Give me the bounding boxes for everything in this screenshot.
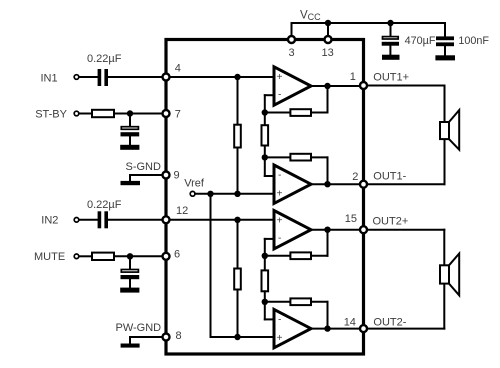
pin 2 — [352, 171, 406, 188]
pin 1 — [350, 71, 409, 89]
input terminal ST-BY — [35, 108, 79, 120]
pin 8 — [163, 330, 182, 342]
pin 4 — [163, 63, 181, 81]
wire Vref row to op-amp U1B + — [195, 193, 273, 195]
wire U1A - input — [265, 95, 273, 112]
input terminal IN1 — [41, 72, 79, 84]
node IN1/R3 — [234, 74, 240, 80]
node U1C output — [324, 227, 330, 233]
capacitor C5 470uF — [382, 35, 436, 60]
wire U1A output to pin 1 — [311, 85, 361, 87]
resistor R1 (ST-BY) — [92, 110, 114, 117]
svg-text:+: + — [277, 72, 283, 83]
node U1B output — [324, 181, 330, 187]
svg-text:-: - — [278, 89, 281, 100]
svg-text:OUT2+: OUT2+ — [373, 216, 409, 228]
resistor R3 (bias ch1) — [234, 77, 241, 194]
wire U1B output to pin 2 — [311, 183, 361, 185]
svg-text:IN1: IN1 — [41, 72, 58, 84]
speaker LS2 — [440, 254, 459, 296]
svg-text:OUT1+: OUT1+ — [373, 72, 409, 84]
svg-text:1: 1 — [350, 71, 356, 83]
svg-text:2: 2 — [352, 171, 358, 183]
input terminal IN2 — [41, 215, 78, 227]
node VCC/C5 — [387, 20, 393, 26]
svg-text:13: 13 — [322, 47, 334, 59]
wire pin12 row to U1C + — [166, 219, 273, 221]
svg-text:ST-BY: ST-BY — [35, 108, 67, 120]
wire U1D output to pin 14 — [311, 328, 361, 330]
svg-text:-: - — [278, 315, 281, 326]
node IN2/R4 — [234, 217, 240, 223]
svg-text:470µF: 470µF — [405, 35, 436, 47]
pin 12 — [163, 205, 189, 223]
wire ST-BY to pin 7 — [79, 113, 162, 115]
svg-text:12: 12 — [176, 205, 188, 217]
ground S-GND — [121, 161, 162, 185]
wire IN1 to pin 4 — [79, 76, 162, 78]
capacitor C2 (ST-BY bypass) — [120, 114, 139, 150]
svg-text:+: + — [277, 333, 283, 344]
pin 13 — [322, 36, 334, 59]
wire U1C - input — [265, 239, 273, 256]
resistor R4 (bias ch2) — [234, 220, 241, 337]
resistor R5 (chain ch1) — [262, 113, 269, 158]
op-amp U1B — [274, 165, 311, 203]
svg-text:CC: CC — [308, 12, 321, 22]
resistor Rf3 (U1C feedback) — [265, 230, 328, 259]
svg-text:-: - — [278, 233, 281, 244]
node B — [262, 154, 268, 160]
op-amp U1A — [274, 67, 311, 105]
pin 6 — [163, 249, 181, 261]
node U1A output — [324, 83, 330, 89]
svg-text:9: 9 — [174, 170, 180, 182]
node Vref/R3 — [234, 191, 240, 197]
capacitor C6 100nF — [435, 35, 489, 60]
wire IN2 to pin 12 — [79, 219, 162, 221]
wire pin4 row to U1A + — [166, 76, 273, 78]
wire speaker LS1 to pin 2 — [367, 139, 445, 184]
capacitor C1 0.22uF (IN1) — [87, 53, 122, 86]
node junction ST-BY/C2 — [127, 110, 133, 116]
svg-text:MUTE: MUTE — [34, 251, 65, 263]
svg-text:14: 14 — [344, 316, 356, 328]
svg-text:Vref: Vref — [184, 178, 205, 190]
node A — [262, 109, 268, 115]
terminal Vref — [184, 178, 205, 197]
op-amp U1D — [274, 309, 311, 347]
svg-text:PW-GND: PW-GND — [116, 322, 162, 334]
resistor Rf4 (U1D feedback) — [265, 298, 328, 328]
svg-text:15: 15 — [345, 213, 357, 225]
op-amp U1C — [274, 211, 311, 249]
wire pin 1 to speaker LS1 — [367, 86, 445, 123]
svg-text:S-GND: S-GND — [126, 161, 162, 173]
resistor R2 (MUTE) — [92, 253, 114, 260]
wire node B to U1B - — [265, 157, 273, 176]
capacitor C3 0.22uF (IN2) — [87, 199, 122, 228]
pin 9 — [163, 170, 180, 182]
resistor R6 (chain ch2) — [262, 256, 269, 302]
svg-text:OUT2-: OUT2- — [373, 316, 406, 328]
input terminal MUTE — [34, 251, 79, 263]
svg-text:-: - — [278, 170, 281, 181]
IC U1 body — [166, 40, 364, 355]
node U1D output — [324, 325, 330, 331]
svg-text:3: 3 — [289, 47, 295, 59]
wire VCC rail — [292, 23, 446, 36]
pin 7 — [163, 108, 181, 120]
pin 14 — [344, 316, 407, 332]
resistor Rf2 (U1B feedback) — [265, 154, 328, 184]
node Vref/column — [207, 191, 213, 197]
VCC label — [300, 10, 321, 23]
node C — [262, 253, 268, 259]
svg-text:100nF: 100nF — [458, 35, 489, 47]
node junction MUTE/C4 — [127, 253, 133, 259]
svg-text:6: 6 — [174, 249, 180, 261]
capacitor C4 (MUTE bypass) — [120, 256, 139, 292]
svg-text:0.22µF: 0.22µF — [87, 199, 122, 211]
wire node D to U1D - — [265, 302, 273, 320]
wire Vref column down to U1D + row — [211, 194, 273, 337]
node R4/U1D+ row — [234, 334, 240, 340]
svg-text:4: 4 — [175, 63, 181, 75]
svg-text:+: + — [277, 216, 283, 227]
wire speaker LS2 to pin 14 — [367, 284, 444, 329]
svg-text:8: 8 — [176, 330, 182, 342]
wire MUTE to pin 6 — [79, 255, 162, 257]
svg-text:0.22µF: 0.22µF — [87, 53, 122, 65]
wire U1C output to pin 15 — [311, 229, 361, 231]
node VCC/pin13 — [325, 20, 331, 26]
svg-text:IN2: IN2 — [41, 215, 58, 227]
speaker LS1 — [440, 110, 459, 150]
svg-text:+: + — [277, 188, 283, 199]
wire pin 15 to speaker LS2 — [367, 230, 444, 266]
ground PW-GND — [116, 322, 162, 348]
pin 15 — [345, 213, 408, 233]
svg-text:7: 7 — [175, 108, 181, 120]
resistor Rf1 (U1A feedback) — [265, 86, 328, 116]
node D — [262, 299, 268, 305]
pin 3 — [288, 36, 295, 59]
svg-text:OUT1-: OUT1- — [373, 171, 406, 183]
